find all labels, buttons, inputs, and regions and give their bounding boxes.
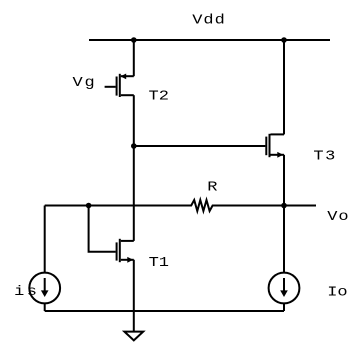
- label T2: [149, 88, 169, 104]
- wire gate feedback to T1: [89, 206, 116, 252]
- current source is: [29, 273, 60, 304]
- transistor T1: [117, 239, 134, 263]
- transistor T2: [117, 74, 134, 98]
- node Vdd junction T2: [131, 37, 137, 43]
- wire T1 source to ground: [133, 260, 135, 332]
- label T1: [149, 254, 169, 270]
- svg-text:T3: T3: [313, 148, 336, 164]
- svg-text:T2: T2: [149, 88, 169, 104]
- node T2 drain junction: [131, 143, 137, 149]
- node output junction right: [281, 203, 287, 209]
- wire T3 drain to Vdd: [283, 39, 285, 134]
- resistor R and output wire Vo: [45, 200, 316, 211]
- node Vdd junction T3: [281, 37, 287, 43]
- current source Io: [269, 273, 300, 304]
- wire T2 drain to T1 drain: [133, 146, 135, 241]
- label Vg: [73, 74, 97, 90]
- label T3: [313, 148, 336, 164]
- wire T2 drain down: [133, 95, 135, 146]
- label is: [14, 283, 39, 299]
- svg-text:R: R: [207, 179, 217, 195]
- node output junction left: [86, 203, 92, 209]
- label Io: [327, 284, 347, 300]
- svg-text:Io: Io: [327, 284, 347, 300]
- wire T2 drain to T3 gate: [134, 145, 266, 147]
- transistor T3: [266, 134, 284, 158]
- ground: [124, 332, 143, 341]
- label R: [207, 179, 217, 195]
- wire is bottom: [44, 303, 46, 311]
- svg-text:Vg: Vg: [73, 74, 97, 90]
- wire ground rail: [45, 310, 284, 312]
- wire Vdd rail: [89, 39, 330, 41]
- label Vdd: [192, 12, 226, 28]
- svg-text:Vdd: Vdd: [192, 12, 226, 28]
- wire Vg gate stub: [105, 86, 116, 88]
- wire is top: [44, 206, 46, 273]
- svg-text:T1: T1: [149, 254, 169, 270]
- wire T3 source down to Io: [283, 155, 285, 273]
- svg-text:is: is: [14, 283, 39, 299]
- svg-text:Vo: Vo: [327, 209, 349, 225]
- wire T2 source to Vdd: [133, 39, 135, 76]
- label Vo: [327, 209, 349, 225]
- wire Io bottom: [283, 303, 285, 311]
